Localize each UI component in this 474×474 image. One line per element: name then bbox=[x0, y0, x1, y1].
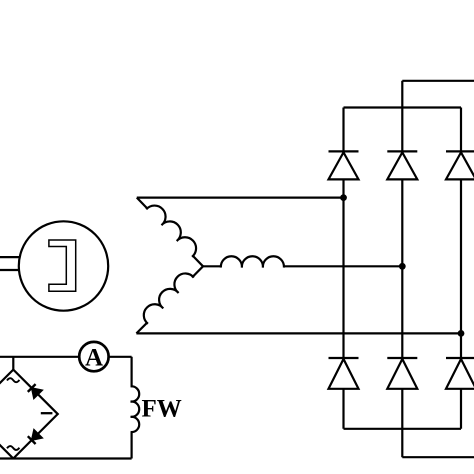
svg-text:FW: FW bbox=[142, 396, 182, 423]
svg-text:A: A bbox=[85, 344, 103, 371]
